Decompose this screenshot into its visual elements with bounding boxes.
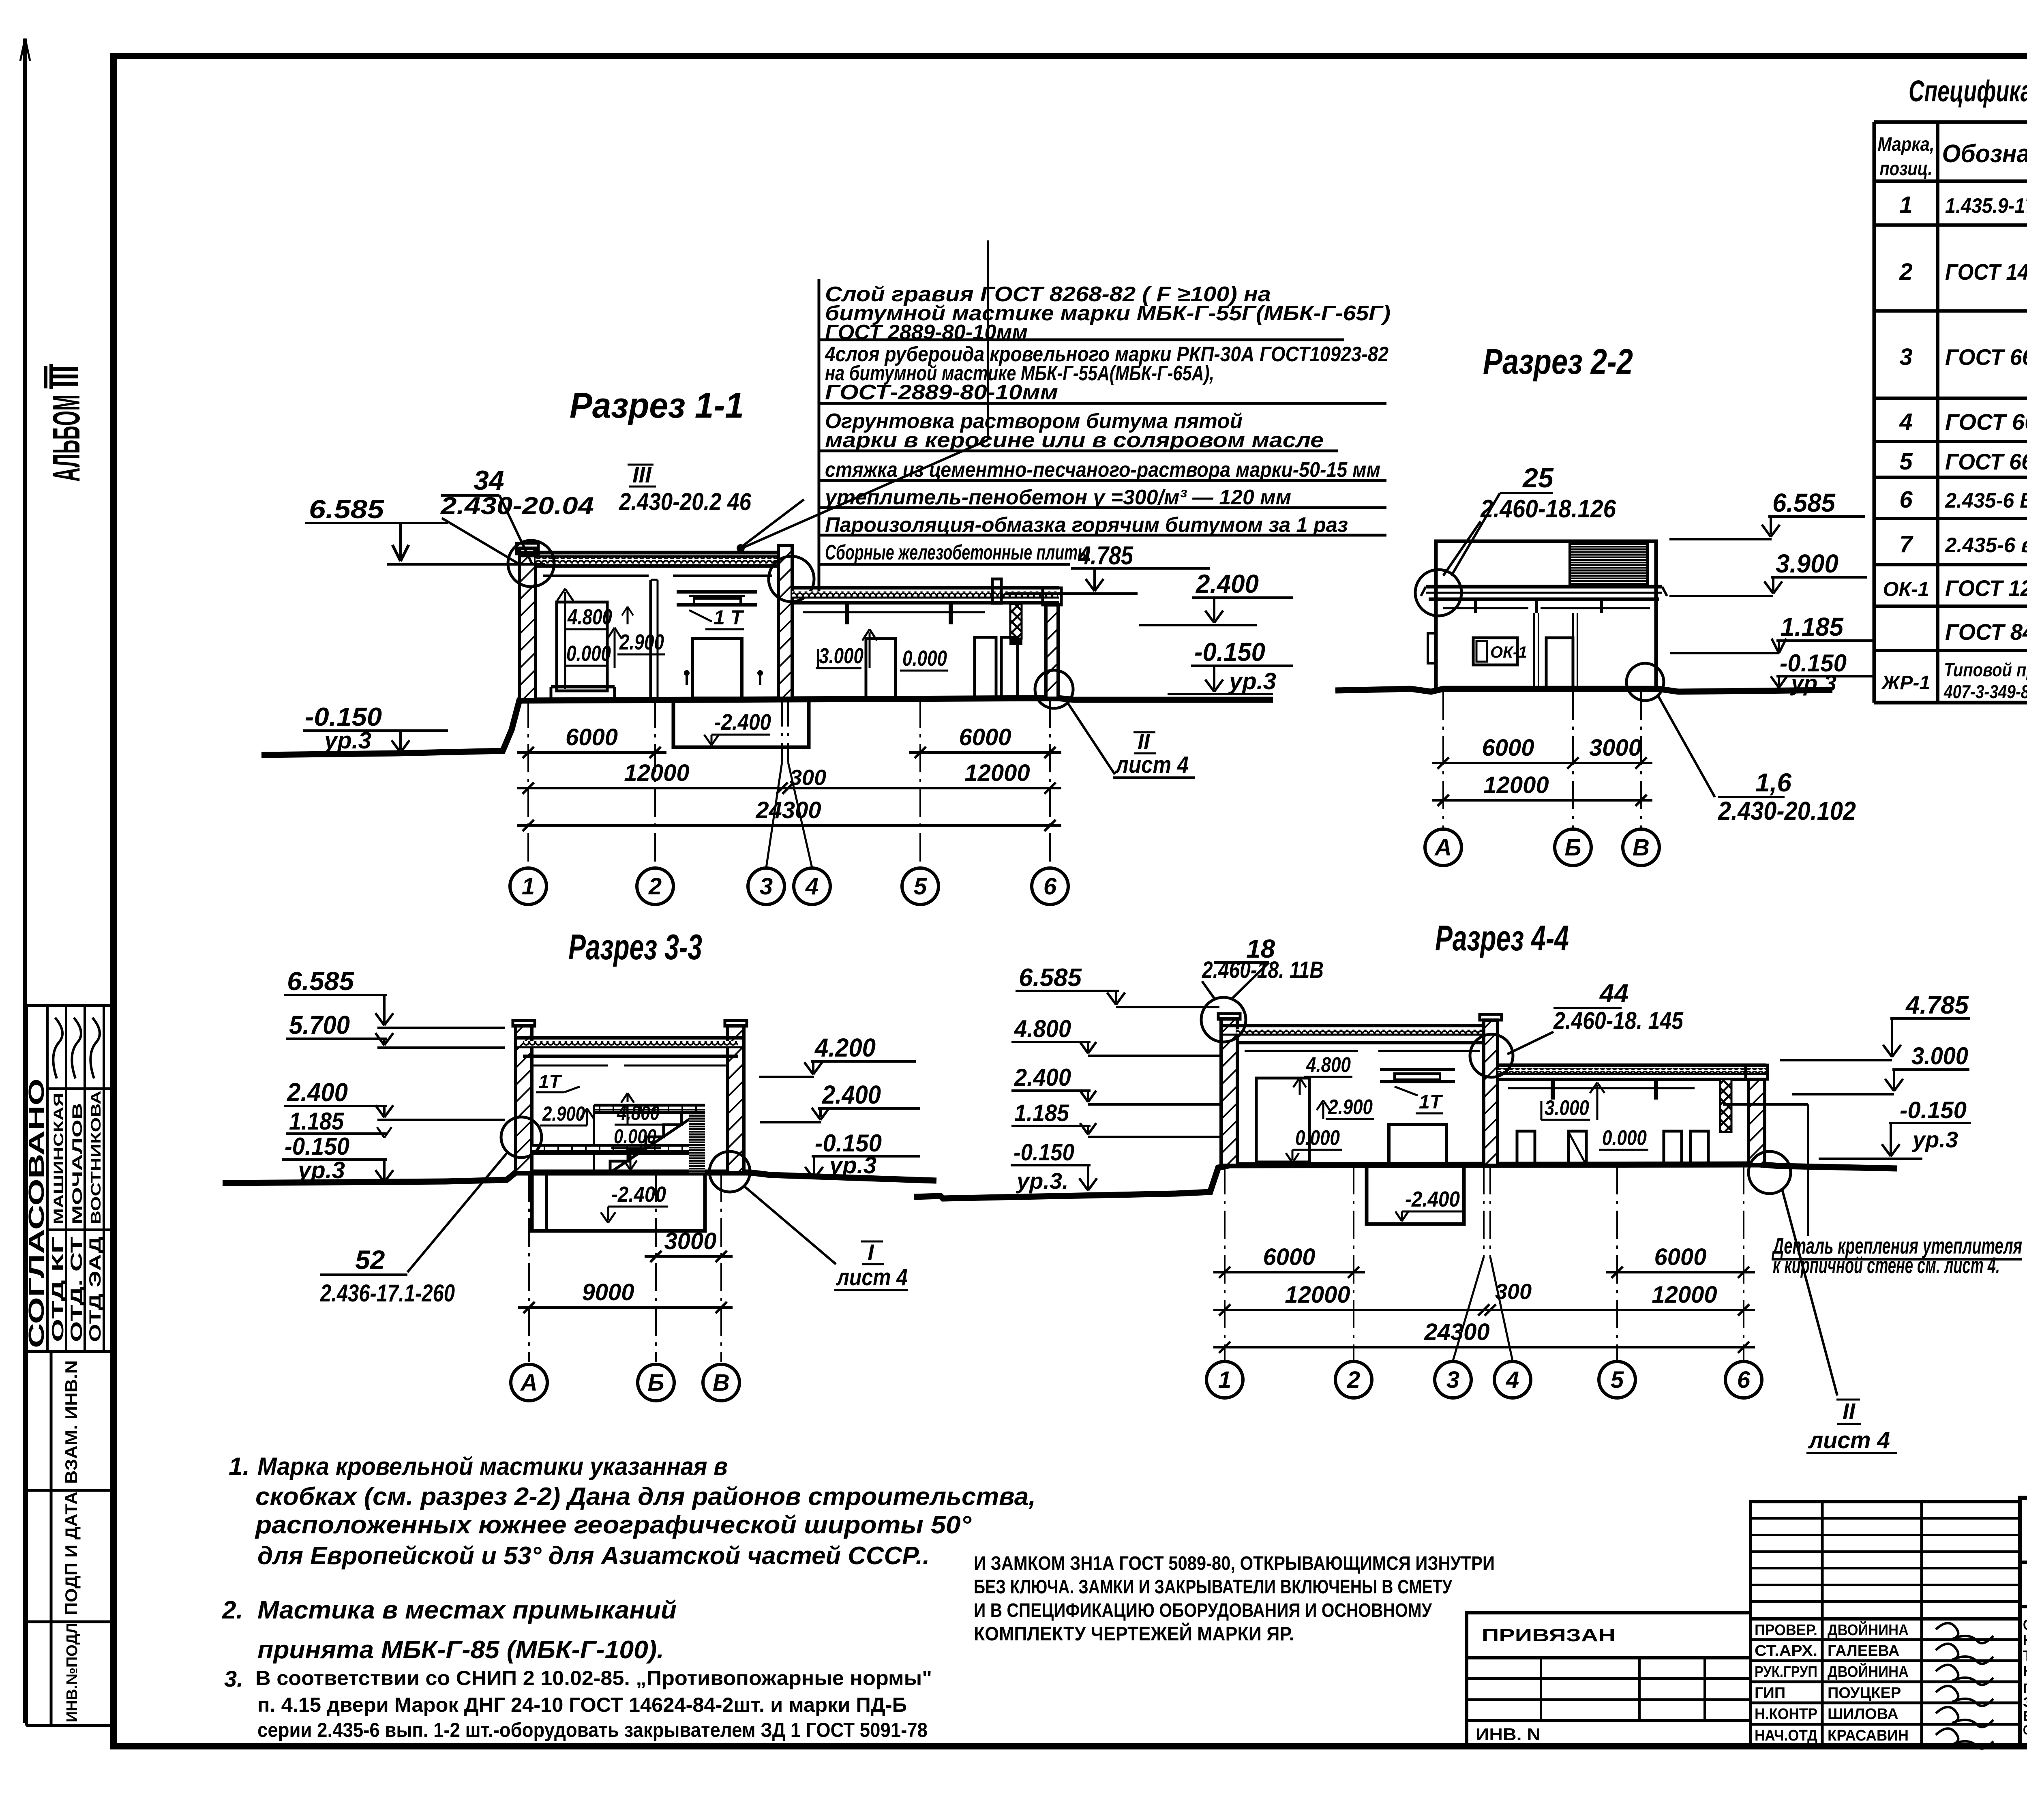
svg-text:ЗДАНИЕ.РАЗРЕЗЫ 1-1; 2-2; 3-3 ;: ЗДАНИЕ.РАЗРЕЗЫ 1-1; 2-2; 3-3 ; 4-4 bbox=[2023, 1695, 2027, 1710]
svg-text:ТЕЛЬНОСТЬЮ 100 М 3/СУТ. С ГЛУ: ТЕЛЬНОСТЬЮ 100 М 3/СУТ. С ГЛУБО- bbox=[2023, 1647, 2027, 1664]
dimension 9000 section 3-3 bbox=[518, 1306, 733, 1309]
signatures in strip bbox=[53, 1018, 62, 1078]
section 3-3 roof slab bbox=[516, 1036, 744, 1040]
parapet cap middle wall 4-4 bbox=[1480, 1014, 1502, 1020]
svg-text:ГАЛЕЕВА: ГАЛЕЕВА bbox=[1828, 1642, 1899, 1659]
svg-text:ДВОЙНИНА: ДВОЙНИНА bbox=[1828, 1621, 1909, 1639]
svg-text:4.800: 4.800 bbox=[617, 1102, 660, 1124]
svg-text:А: А bbox=[1434, 834, 1452, 861]
basement pit section 1-1 bbox=[673, 699, 809, 747]
svg-text:Разрез 3-3: Разрез 3-3 bbox=[568, 927, 702, 967]
svg-text:КОЙ ОЧИСТКОЙ: КОЙ ОЧИСТКОЙ bbox=[2023, 1662, 2027, 1679]
ground line section 3-3 bbox=[223, 1173, 936, 1183]
svg-text:12000: 12000 bbox=[964, 760, 1030, 786]
svg-text:Б: Б bbox=[647, 1370, 664, 1396]
svg-text:0.000: 0.000 bbox=[566, 641, 611, 666]
svg-text:Марка,: Марка, bbox=[1878, 134, 1935, 155]
roof make-up notes block bbox=[818, 279, 821, 594]
svg-text:-2.400: -2.400 bbox=[1405, 1187, 1460, 1211]
axis bubbles section 4-4 bbox=[1206, 1361, 1243, 1398]
svg-text:300: 300 bbox=[790, 765, 826, 790]
door section 2-2 bbox=[1546, 638, 1573, 690]
section 1-1 middle wall axes 3-4 bbox=[778, 545, 792, 698]
svg-text:6: 6 bbox=[1043, 873, 1057, 900]
svg-text:5.700: 5.700 bbox=[289, 1010, 350, 1040]
section 3-3 interior hatched pier bbox=[689, 1114, 705, 1173]
svg-text:2.400: 2.400 bbox=[1014, 1064, 1071, 1091]
leader line to wall insulation 4-4 bbox=[1807, 1104, 1809, 1236]
svg-text:4.785: 4.785 bbox=[1078, 541, 1133, 570]
svg-text:2: 2 bbox=[648, 873, 662, 900]
svg-text:0.000: 0.000 bbox=[1295, 1126, 1340, 1150]
svg-text:6000: 6000 bbox=[959, 724, 1011, 750]
signature squiggles bbox=[1936, 1623, 1993, 1643]
svg-text:1,6: 1,6 bbox=[1755, 768, 1791, 797]
svg-text:1Т: 1Т bbox=[538, 1071, 562, 1092]
svg-text:1: 1 bbox=[1899, 192, 1912, 218]
svg-text:4: 4 bbox=[805, 873, 819, 900]
svg-text:ур.3: ур.3 bbox=[323, 727, 371, 754]
svg-text:1Т: 1Т bbox=[1419, 1091, 1443, 1113]
svg-text:И ЗАМКОМ ЗН1А ГОСТ 5089-80, ОТ: И ЗАМКОМ ЗН1А ГОСТ 5089-80, ОТКРЫВАЮЩИМС… bbox=[974, 1553, 1495, 1574]
svg-text:3: 3 bbox=[1899, 344, 1912, 370]
svg-text:2: 2 bbox=[1899, 259, 1912, 285]
svg-text:2.900: 2.900 bbox=[619, 630, 664, 654]
svg-text:лист 4: лист 4 bbox=[1808, 1427, 1890, 1453]
svg-text:ПРОВЕР.: ПРОВЕР. bbox=[1755, 1622, 1817, 1639]
leader 1,6 2.430-20.102 bbox=[1658, 696, 1715, 797]
svg-text:7: 7 bbox=[1899, 531, 1913, 557]
svg-text:НАЧ.ОТД: НАЧ.ОТД bbox=[1755, 1727, 1817, 1744]
soglasovano strip table bbox=[26, 1004, 113, 1007]
detail circle right wall base 4-4 bbox=[1748, 1151, 1791, 1194]
svg-text:ГОСТ 12506-81: ГОСТ 12506-81 bbox=[1945, 575, 2027, 601]
svg-text:2.460-18.126: 2.460-18.126 bbox=[1480, 495, 1616, 523]
svg-text:ОТД КГ: ОТД КГ bbox=[49, 1237, 67, 1342]
svg-text:ИНВ. N: ИНВ. N bbox=[1476, 1725, 1541, 1744]
svg-text:52: 52 bbox=[355, 1245, 385, 1275]
svg-text:0.000: 0.000 bbox=[1602, 1126, 1647, 1150]
section 4-4 tall roof slab bbox=[1221, 1024, 1499, 1027]
svg-text:-2.400: -2.400 bbox=[714, 709, 771, 735]
svg-text:ур.3: ур.3 bbox=[1790, 670, 1836, 696]
svg-text:ГОСТ 6629-74: ГОСТ 6629-74 bbox=[1945, 409, 2027, 435]
svg-text:РУК.ГРУП: РУК.ГРУП bbox=[1755, 1664, 1817, 1681]
svg-text:В соответствии со СНИП 2 10.02: В соответствии со СНИП 2 10.02-85. „Прот… bbox=[255, 1667, 932, 1689]
svg-text:ГОСТ 8484-: ГОСТ 8484- bbox=[1945, 619, 2027, 645]
svg-text:ОК-1: ОК-1 bbox=[1490, 643, 1527, 661]
svg-text:ГОСТ 6629- 74: ГОСТ 6629- 74 bbox=[1945, 449, 2027, 474]
svg-text:9000: 9000 bbox=[582, 1279, 634, 1306]
section 1-1 low span roof bbox=[792, 586, 1059, 590]
svg-text:0.000: 0.000 bbox=[902, 646, 947, 671]
svg-text:к кирпичной стене см. лист 4.: к кирпичной стене см. лист 4. bbox=[1773, 1252, 2000, 1278]
svg-text:БЕЗ КЛЮЧА. ЗАМКИ И ЗАКРЫВАТЕЛИ: БЕЗ КЛЮЧА. ЗАМКИ И ЗАКРЫВАТЕЛИ ВКЛЮЧЕНЫ … bbox=[974, 1576, 1453, 1598]
svg-text:ДВОЙНИНА: ДВОЙНИНА bbox=[1828, 1662, 1909, 1681]
binding margin line bbox=[23, 39, 27, 1723]
crane beam 1T section 1-1 bbox=[677, 590, 757, 594]
section 1-1 interior wall axis 2 bbox=[649, 580, 652, 698]
svg-text:1.: 1. bbox=[229, 1453, 250, 1481]
svg-text:II: II bbox=[1138, 730, 1150, 754]
section 4-4 room equipment left bbox=[1256, 1078, 1309, 1162]
svg-text:6.585: 6.585 bbox=[1772, 488, 1836, 517]
privyazan box bbox=[1467, 1613, 1751, 1658]
inv N row bbox=[1465, 1721, 1468, 1746]
dimension row 24300 section 1-1 bbox=[517, 824, 1061, 827]
svg-text:лист 4: лист 4 bbox=[1114, 752, 1189, 778]
svg-text:-0.150: -0.150 bbox=[1013, 1139, 1074, 1166]
svg-text:2.435-6 Вып. 1: 2.435-6 Вып. 1 bbox=[1945, 489, 2027, 512]
svg-text:МОЧАЛОВ: МОЧАЛОВ bbox=[70, 1103, 85, 1224]
svg-text:ур.3: ур.3 bbox=[1228, 668, 1276, 695]
svg-text:3: 3 bbox=[1446, 1367, 1459, 1393]
vzam inv n box bbox=[50, 1351, 53, 1726]
svg-text:ОК-1: ОК-1 bbox=[1883, 578, 1929, 600]
svg-text:6.585: 6.585 bbox=[1019, 964, 1082, 992]
svg-text:6.585: 6.585 bbox=[287, 967, 354, 996]
svg-text:ГИП: ГИП bbox=[1755, 1685, 1785, 1702]
svg-text:Мастика в местах примыканий: Мастика в местах примыканий bbox=[257, 1596, 677, 1624]
svg-text:-0.150: -0.150 bbox=[1900, 1097, 1967, 1123]
section 2-2 interior walls bbox=[1533, 613, 1535, 689]
svg-text:КРАСАВИН: КРАСАВИН bbox=[1828, 1727, 1909, 1744]
svg-text:6000: 6000 bbox=[1263, 1244, 1315, 1270]
svg-text:2.400: 2.400 bbox=[287, 1078, 348, 1107]
svg-text:Б: Б bbox=[1564, 834, 1581, 861]
section 4-4 door axis 3 bbox=[1389, 1125, 1446, 1164]
detail circle top of left wall 1-1 bbox=[508, 540, 554, 587]
dimension row right 12000 section 1-1 bbox=[777, 787, 1061, 789]
svg-text:1.185: 1.185 bbox=[1014, 1100, 1069, 1126]
svg-text:Типовой проект: Типовой проект bbox=[1944, 659, 2027, 680]
svg-text:Марка кровельной мастики ук: Марка кровельной мастики указанная в bbox=[257, 1453, 728, 1481]
section 3-3 building walls bbox=[516, 1025, 532, 1173]
svg-text:2.460-18. 145: 2.460-18. 145 bbox=[1553, 1007, 1684, 1034]
dimension row 12000 section 2-2 bbox=[1432, 799, 1652, 802]
title block outer bbox=[2020, 1498, 2027, 1746]
svg-text:4.800: 4.800 bbox=[1306, 1053, 1351, 1077]
detail circle eaves left 2-2 bbox=[1415, 570, 1461, 616]
svg-text:25: 25 bbox=[1522, 463, 1554, 493]
svg-text:-2.400: -2.400 bbox=[611, 1182, 666, 1207]
svg-text:-0.150: -0.150 bbox=[285, 1133, 349, 1160]
leader II лист4 at ground right 1-1 bbox=[1035, 670, 1073, 708]
svg-text:0.000: 0.000 bbox=[614, 1125, 656, 1148]
svg-text:позиц.: позиц. bbox=[1880, 158, 1933, 180]
section 4-4 right wall bbox=[1748, 1079, 1765, 1164]
svg-text:утеплитель-пенобетон γ =300/м³: утеплитель-пенобетон γ =300/м³ — 120 мм bbox=[824, 486, 1291, 509]
section 2-2 roof hatched patch bbox=[1570, 544, 1648, 584]
svg-text:п. 4.15 двери Марок ДНГ 24-10: п. 4.15 двери Марок ДНГ 24-10 ГОСТ 14624… bbox=[257, 1694, 907, 1716]
svg-text:ИНВ.№ПОДЛ: ИНВ.№ПОДЛ bbox=[64, 1623, 81, 1722]
svg-text:5: 5 bbox=[914, 873, 927, 900]
svg-text:ПОУЦКЕР: ПОУЦКЕР bbox=[1828, 1685, 1901, 1702]
svg-text:ПОДП И ДАТА: ПОДП И ДАТА bbox=[62, 1492, 81, 1615]
svg-text:2.400: 2.400 bbox=[822, 1080, 881, 1109]
svg-text:4.800: 4.800 bbox=[567, 605, 612, 629]
svg-text:2.435-6 вып. 1: 2.435-6 вып. 1 bbox=[1945, 534, 2027, 557]
section 1-1 roof slab tall span bbox=[519, 551, 791, 555]
ground line section 4-4 bbox=[914, 1164, 1897, 1198]
svg-text:2.: 2. bbox=[222, 1596, 243, 1624]
svg-text:1.185: 1.185 bbox=[1781, 612, 1844, 641]
svg-text:6.585: 6.585 bbox=[309, 495, 385, 524]
svg-text:3.: 3. bbox=[224, 1666, 243, 1691]
podp i data box bbox=[26, 1621, 113, 1623]
svg-text:1: 1 bbox=[1218, 1367, 1231, 1393]
dimension row 12000 / 300 section 1-1 bbox=[517, 787, 793, 789]
svg-text:лист 4: лист 4 bbox=[836, 1264, 908, 1291]
svg-text:Пароизоляция-обмазка горячим б: Пароизоляция-обмазка горячим битумом за … bbox=[825, 513, 1348, 537]
svg-text:ур.3: ур.3 bbox=[297, 1157, 345, 1183]
svg-text:4: 4 bbox=[1506, 1367, 1519, 1393]
section 1-1 door axis 2-3 bbox=[692, 639, 742, 698]
upper narrow grid above signatures bbox=[1751, 1502, 2020, 1619]
ground line section 1-1 bbox=[261, 698, 1273, 755]
section 4-4 middle wall bbox=[1484, 1020, 1498, 1165]
svg-text:МАШИНСКАЯ: МАШИНСКАЯ bbox=[51, 1093, 66, 1224]
svg-text:4.800: 4.800 bbox=[1014, 1015, 1071, 1042]
axis lines section 2-2 bbox=[1442, 692, 1444, 828]
svg-text:5: 5 bbox=[1899, 448, 1913, 475]
detail circle ground right 2-2 bbox=[1626, 663, 1664, 701]
svg-text:1 Т: 1 Т bbox=[714, 606, 745, 629]
svg-text:4: 4 bbox=[1899, 409, 1912, 435]
section 3-3 mezzanine floor bbox=[594, 1105, 705, 1113]
svg-text:3: 3 bbox=[760, 873, 773, 900]
svg-text:принята МБК-Г-85 (МБК-Г-100): принята МБК-Г-85 (МБК-Г-100). bbox=[257, 1636, 664, 1664]
inv n podl box bbox=[26, 1724, 113, 1727]
axis bubbles section 3-3 bbox=[511, 1364, 547, 1401]
svg-text:ВЗАМ. ИНВ.N: ВЗАМ. ИНВ.N bbox=[62, 1360, 81, 1484]
dimension row right 6000 section 1-1 bbox=[909, 751, 1061, 754]
leader II лист4 4-4 bbox=[1782, 1188, 1837, 1396]
svg-text:24300: 24300 bbox=[1424, 1319, 1489, 1345]
svg-text:3.900: 3.900 bbox=[1776, 549, 1838, 578]
axis lines section 4-4 bbox=[1224, 1166, 1226, 1361]
svg-text:ГОСТ 6629÷74: ГОСТ 6629÷74 bbox=[1945, 344, 2027, 370]
louver strip near right wall bbox=[1010, 604, 1022, 639]
svg-text:3000: 3000 bbox=[664, 1228, 716, 1254]
crane beam 1T section 4-4 bbox=[1380, 1068, 1455, 1071]
svg-text:ПРИВЯЗАН: ПРИВЯЗАН bbox=[1482, 1625, 1616, 1645]
svg-text:Разрез 2-2: Разрез 2-2 bbox=[1483, 341, 1633, 382]
svg-text:407-3-349-84 Ал. III: 407-3-349-84 Ал. III bbox=[1943, 681, 2027, 702]
svg-text:А: А bbox=[520, 1370, 538, 1396]
svg-text:12000: 12000 bbox=[1652, 1282, 1717, 1308]
ground line section 2-2 bbox=[1335, 689, 1832, 692]
svg-text:СТАНЦИЯ БИОЛОГИЧЕСКОЙ ОЧИСТКИ: СТАНЦИЯ БИОЛОГИЧЕСКОЙ ОЧИСТКИ СТОЧ bbox=[2023, 1616, 2027, 1633]
svg-text:ур.3: ур.3 bbox=[1911, 1127, 1958, 1152]
svg-text:ВОСТНИКОВА: ВОСТНИКОВА bbox=[88, 1091, 104, 1224]
svg-text:расположенных южнее географиче: расположенных южнее географической широт… bbox=[255, 1511, 972, 1539]
svg-text:12000: 12000 bbox=[624, 760, 689, 786]
svg-text:ОТД ЭАД: ОТД ЭАД bbox=[86, 1237, 104, 1342]
svg-text:2.900: 2.900 bbox=[1328, 1095, 1373, 1119]
section 1-1 right wall bbox=[1046, 605, 1058, 698]
small ledge left wall 2-2 bbox=[1428, 633, 1436, 663]
svg-text:2.900: 2.900 bbox=[542, 1102, 585, 1125]
svg-text:24300: 24300 bbox=[755, 797, 821, 823]
svg-text:Н.КОНТР: Н.КОНТР bbox=[1755, 1706, 1817, 1723]
svg-text:стяжка из цементно-песчаного-р: стяжка из цементно-песчаного-раствора ма… bbox=[825, 458, 1380, 482]
svg-text:-0.150: -0.150 bbox=[1194, 637, 1265, 667]
section 2-2 roof purlin ticks bbox=[1474, 599, 1477, 613]
roof rib posts low span bbox=[845, 603, 849, 624]
basement section 3-3 bbox=[532, 1173, 705, 1231]
svg-text:6000: 6000 bbox=[1654, 1244, 1706, 1270]
section 4-4 low roof slab bbox=[1498, 1063, 1766, 1067]
svg-text:В: В bbox=[1633, 834, 1650, 861]
svg-text:1.185: 1.185 bbox=[289, 1108, 344, 1135]
svg-text:ШИЛОВА: ШИЛОВА bbox=[1828, 1706, 1898, 1723]
detail circle middle wall 4-4 bbox=[1470, 1034, 1513, 1077]
spec table grid bbox=[1874, 120, 2027, 124]
svg-text:Сборные железобетонные плиты: Сборные железобетонные плиты bbox=[825, 541, 1091, 564]
dimension row 6000 3000 section 2-2 bbox=[1432, 762, 1584, 764]
section 1-1 parapet left bbox=[516, 543, 538, 554]
svg-text:АЛЬБОМ: АЛЬБОМ bbox=[45, 394, 88, 482]
svg-text:ЖР-1: ЖР-1 bbox=[1881, 672, 1930, 694]
svg-text:для Европейской и 53° для Азиа: для Европейской и 53° для Азиатской част… bbox=[257, 1542, 930, 1570]
svg-text:ур.3: ур.3 bbox=[828, 1152, 876, 1179]
section 1-1 left brick wall bbox=[519, 548, 536, 699]
svg-text:2.436-17.1-260: 2.436-17.1-260 bbox=[320, 1280, 455, 1307]
section 4-4 interior door leaves bbox=[1517, 1131, 1535, 1164]
svg-text:12000: 12000 bbox=[1285, 1282, 1350, 1308]
svg-text:6: 6 bbox=[1737, 1367, 1751, 1393]
detail circle top left wall 4-4 bbox=[1201, 997, 1246, 1042]
svg-text:6000: 6000 bbox=[1482, 735, 1534, 761]
window OK-1 section 2-2 bbox=[1473, 638, 1517, 665]
svg-text:ВЕДОМОСТЬ ПРОЕМОВ ВОРОТ И ДВЕР: ВЕДОМОСТЬ ПРОЕМОВ ВОРОТ И ДВЕРЕЙ- bbox=[2023, 1708, 2027, 1724]
left small grid of title block bbox=[1467, 1658, 1751, 1721]
svg-text:II: II bbox=[1843, 1398, 1856, 1424]
svg-text:ГОСТ 14624- 84: ГОСТ 14624- 84 bbox=[1945, 259, 2027, 285]
svg-text:марки в керосине или в соляров: марки в керосине или в соляровом масле bbox=[825, 429, 1324, 452]
section 2-2 building outline bbox=[1436, 541, 1656, 689]
svg-text:ПРОИЗВОДСТВЕННО-ВСПОМОГАТЕЛЬНО: ПРОИЗВОДСТВЕННО-ВСПОМОГАТЕЛЬНОЕ bbox=[2023, 1681, 2027, 1696]
svg-text:5: 5 bbox=[1611, 1367, 1624, 1393]
section 2-2 eaves slab bbox=[1426, 585, 1662, 589]
svg-text:6: 6 bbox=[1899, 487, 1913, 513]
svg-text:скобках (см. разрез 2-2) Дана: скобках (см. разрез 2-2) Дана для районо… bbox=[255, 1483, 1036, 1511]
svg-text:Спецификация элементов заполн: Спецификация элементов заполнения проемо… bbox=[1909, 74, 2027, 108]
svg-text:2.400: 2.400 bbox=[1196, 569, 1259, 598]
title block second band bbox=[2020, 1605, 2027, 1608]
axis lines section 1-1 bbox=[527, 699, 529, 868]
svg-text:300: 300 bbox=[1495, 1280, 1532, 1304]
svg-text:4.200: 4.200 bbox=[814, 1033, 876, 1062]
title block signature rows bbox=[1751, 1618, 2020, 1621]
axis bubbles section 2-2 bbox=[1425, 829, 1461, 866]
svg-text:3.000: 3.000 bbox=[819, 644, 864, 668]
section 1-1 parapet post right of low roof bbox=[992, 579, 1001, 603]
svg-text:СОГЛАСОВАНО: СОГЛАСОВАНО bbox=[24, 1078, 49, 1348]
section 1-1 room equipment left bbox=[557, 602, 607, 691]
louver strip near right wall 4-4 bbox=[1720, 1079, 1731, 1132]
svg-text:СТ.АРХ.: СТ.АРХ. bbox=[1755, 1642, 1817, 1659]
section 4-4 basement pit bbox=[1367, 1165, 1464, 1224]
leader 52 2.436-17.1-260 bbox=[501, 1117, 542, 1158]
svg-text:2.430-20.2 46: 2.430-20.2 46 bbox=[619, 488, 751, 515]
detail circle at middle wall bbox=[769, 556, 814, 602]
svg-text:ур.3.: ур.3. bbox=[1016, 1168, 1069, 1194]
svg-text:1.435.9-17. Вып.3: 1.435.9-17. Вып.3 bbox=[1945, 194, 2027, 218]
dimension row 6000 section 1-1 bbox=[517, 751, 666, 754]
svg-text:2.430-20.102: 2.430-20.102 bbox=[1718, 796, 1856, 825]
svg-text:ОТД. СТ: ОТД. СТ bbox=[68, 1237, 86, 1342]
axis lines section 3-3 bbox=[528, 1174, 530, 1362]
svg-text:2: 2 bbox=[1347, 1367, 1360, 1393]
svg-text:3.000: 3.000 bbox=[1911, 1042, 1968, 1070]
title block TP number row bbox=[2020, 1561, 2027, 1564]
dimension 3000 section 3-3 bbox=[645, 1255, 733, 1258]
svg-text:И В СПЕЦИФИКАЦИЮ ОБОРУДОВАНИЯ: И В СПЕЦИФИКАЦИЮ ОБОРУДОВАНИЯ И ОСНОВНОМ… bbox=[974, 1600, 1432, 1621]
svg-text:3000: 3000 bbox=[1589, 735, 1641, 761]
svg-text:2.430-20.04: 2.430-20.04 bbox=[440, 492, 594, 519]
svg-text:КОМПЛЕКТУ ЧЕРТЕЖЕЙ МАРКИ ЯР.: КОМПЛЕКТУ ЧЕРТЕЖЕЙ МАРКИ ЯР. bbox=[974, 1623, 1294, 1645]
dimension rows section 4-4 bbox=[1213, 1271, 1365, 1273]
svg-text:1: 1 bbox=[522, 873, 535, 900]
leader I лист4 right 3-3 bbox=[709, 1151, 750, 1192]
svg-text:НЫХ ВОД С БИОФИЛЬТРАМИ ПРОИЗВО: НЫХ ВОД С БИОФИЛЬТРАМИ ПРОИЗВОДИ- bbox=[2023, 1632, 2027, 1649]
svg-text:В: В bbox=[713, 1370, 730, 1396]
svg-text:Обозначение: Обозначение bbox=[1942, 140, 2027, 168]
svg-text:12000: 12000 bbox=[1483, 772, 1549, 798]
svg-text:Разрез 1-1: Разрез 1-1 bbox=[570, 385, 744, 425]
svg-text:34: 34 bbox=[474, 465, 504, 496]
svg-text:6000: 6000 bbox=[566, 724, 618, 750]
leader from notes to roof of section 1-1 bbox=[987, 240, 989, 440]
roof rib posts low span 4-4 bbox=[1551, 1079, 1555, 1100]
section 4-4 left wall bbox=[1221, 1018, 1237, 1165]
svg-text:3.000: 3.000 bbox=[1545, 1096, 1589, 1120]
section 3-3 parapet caps bbox=[513, 1020, 535, 1026]
svg-text:серии 2.435-6 вып. 1-2 шт.-об: серии 2.435-6 вып. 1-2 шт.-оборудовать з… bbox=[257, 1719, 928, 1741]
svg-text:СПЕЦИФИКАЦИЯ ЭЛЕМЕНТОВ ЗАПОЛНЕ: СПЕЦИФИКАЦИЯ ЭЛЕМЕНТОВ ЗАПОЛНЕНИЯ ПРОЕ- bbox=[2023, 1723, 2027, 1737]
axis bubbles section 1-1 bbox=[510, 868, 546, 905]
svg-text:4.785: 4.785 bbox=[1905, 991, 1969, 1019]
svg-text:44: 44 bbox=[1599, 979, 1628, 1008]
svg-text:ГОСТ-2889-80-10мм: ГОСТ-2889-80-10мм bbox=[825, 381, 1058, 404]
svg-text:Разрез 4-4: Разрез 4-4 bbox=[1435, 918, 1569, 958]
section 3-3 ground floor slab bbox=[532, 1145, 705, 1153]
svg-text:I: I bbox=[868, 1239, 874, 1265]
section 3-3 staircase bbox=[594, 1113, 699, 1173]
